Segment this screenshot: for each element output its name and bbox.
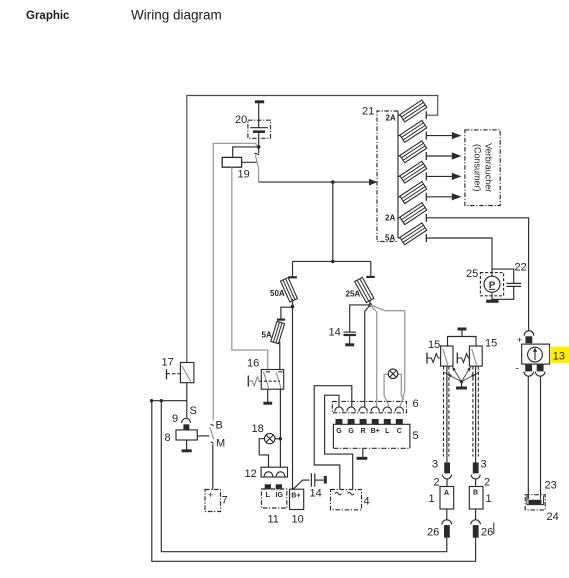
wire main horizontal to fuse box	[259, 181, 370, 183]
plug 3 right	[473, 462, 479, 473]
capacitor 20 plates	[250, 127, 268, 129]
svg-text:11: 11	[268, 514, 279, 526]
capacitor 20 terminal bar	[255, 100, 264, 103]
meter 13 box	[522, 344, 550, 364]
wire socket 2 to alternator left	[314, 386, 352, 490]
ground below regulator 5	[362, 448, 364, 457]
svg-text:A: A	[444, 490, 449, 497]
svg-text:(Consumer): (Consumer)	[473, 144, 483, 192]
switch 16 actuator	[247, 376, 249, 387]
wire fuse 5A to sender 25	[427, 238, 492, 273]
fuse box 21 rail	[397, 111, 399, 238]
switch 16 box	[261, 370, 283, 390]
svg-text:2A: 2A	[385, 214, 395, 223]
glow switch 15 left arm	[443, 349, 448, 366]
node below 50A	[291, 305, 295, 309]
connector 9 socket	[182, 418, 191, 423]
wire to 25A fuse	[370, 261, 372, 277]
svg-text:S: S	[190, 405, 197, 417]
meter 13 dial	[528, 347, 543, 362]
wire junction to socket 3	[365, 305, 371, 407]
svg-text:5A: 5A	[262, 330, 272, 339]
node main horizontal	[331, 180, 335, 184]
shielded cable right	[472, 366, 474, 456]
svg-text:Wiring diagram: Wiring diagram	[131, 8, 222, 23]
fuse row 4	[398, 161, 462, 183]
fuse 50A	[280, 278, 297, 302]
capacitor 20 box	[248, 120, 271, 138]
socket 2 right	[471, 475, 480, 479]
relay 19 fixed contact tick	[258, 147, 260, 153]
wire relay coil to switch 16	[232, 167, 268, 369]
svg-text:25A: 25A	[346, 290, 361, 299]
relay 19 contact arm	[255, 155, 259, 171]
charge lamp	[388, 369, 398, 379]
wire box B to socket	[475, 509, 477, 520]
svg-text:L: L	[385, 428, 390, 435]
wire upper bus A	[161, 401, 447, 552]
wire switch 17 to S junction	[186, 383, 188, 401]
svg-text:4: 4	[364, 496, 370, 508]
glow plug wires 23	[527, 376, 529, 499]
fuse row 5	[398, 182, 462, 204]
shielded cable left	[443, 366, 445, 456]
svg-text:14: 14	[329, 327, 341, 339]
svg-text:16: 16	[247, 358, 259, 370]
node lower	[331, 260, 335, 264]
plug 26 right	[473, 525, 479, 538]
fuse row 1	[386, 100, 427, 122]
svg-text:5A: 5A	[385, 234, 395, 243]
wire glow switch feed	[448, 337, 477, 347]
wire 5A fuse to switch 16	[279, 342, 281, 370]
svg-text:18: 18	[252, 423, 264, 435]
svg-text:5: 5	[413, 430, 419, 442]
svg-text:G: G	[336, 428, 342, 435]
oil sender 25 box	[480, 273, 503, 296]
svg-text:12: 12	[245, 468, 257, 480]
capacitor 22 plates	[506, 282, 521, 284]
wire socket 1 to alternator right	[325, 395, 353, 489]
ground below glow switches	[461, 382, 463, 387]
svg-text:L: L	[266, 492, 271, 499]
terminal tick 50A	[288, 276, 297, 278]
fuse row 2	[398, 120, 462, 142]
connector 6 box	[332, 401, 406, 412]
relay 19 coil box	[222, 157, 241, 167]
switch 17 box	[180, 363, 194, 383]
svg-text:22: 22	[515, 262, 527, 274]
wire B+ node diagonal	[293, 480, 310, 490]
wire capacitor 20 to node	[258, 132, 260, 147]
consumer text	[473, 143, 494, 192]
ground below switch 16	[267, 389, 269, 402]
ground below sender 25	[491, 292, 493, 300]
meter 13 plus pin	[525, 336, 532, 343]
connector 6 sockets	[335, 407, 343, 412]
wire contact to main node	[258, 171, 260, 183]
wire M to battery 7	[212, 444, 214, 489]
fuse 25A	[355, 277, 374, 302]
charge lamp left lead	[384, 374, 389, 406]
capacitor 20 stem wire	[258, 103, 260, 128]
wire main vertical drop	[332, 182, 334, 261]
svg-text:15: 15	[485, 338, 497, 350]
fuse row 7	[385, 223, 427, 245]
wire solenoid to starter contact	[197, 435, 209, 437]
arrow into fuse box	[369, 179, 377, 186]
svg-text:24: 24	[547, 511, 559, 523]
svg-text:50A: 50A	[270, 289, 285, 298]
svg-text:M: M	[216, 438, 225, 450]
ground below capacitor 14	[349, 335, 351, 344]
meter 13 socket	[524, 331, 534, 336]
wire junction to socket 4	[370, 305, 376, 407]
starter pin	[183, 424, 189, 430]
oil sender 25 gauge	[484, 276, 500, 292]
node 25A junction	[369, 303, 373, 307]
capacitor 22 loop bottom	[492, 286, 514, 299]
svg-text:19: 19	[238, 169, 250, 181]
socket above plug 26 left	[442, 520, 452, 525]
lamp 18	[265, 433, 275, 443]
svg-text:10: 10	[292, 514, 304, 526]
unit 11 pin L	[265, 484, 271, 489]
meter 13 lower sockets	[524, 372, 534, 377]
plug 3 left	[444, 462, 450, 473]
svg-text:+: +	[517, 335, 522, 345]
svg-text:1: 1	[486, 493, 492, 505]
consumer box	[465, 130, 500, 206]
svg-text:+: +	[208, 490, 213, 500]
node at relay 19 top	[257, 145, 261, 149]
capacitor 14b wire and terminal	[315, 479, 324, 481]
yellow highlight 13	[550, 347, 569, 364]
fuse row 6	[385, 203, 427, 225]
switch 17 contact arm	[182, 366, 191, 382]
fuse box 21 frame	[377, 111, 398, 242]
fuse row 3	[398, 141, 462, 163]
svg-text:3: 3	[481, 459, 487, 471]
terminal tick 25A	[366, 276, 375, 278]
svg-text:14: 14	[310, 488, 322, 500]
cursor artifact	[493, 523, 495, 535]
wire junction right loop to socket 6	[370, 305, 404, 407]
connector 12 sockets	[264, 472, 273, 477]
wire box A to socket	[446, 509, 448, 520]
igniter B box	[469, 487, 483, 510]
switch 16 mechanical link	[259, 380, 280, 382]
unit 11 box	[262, 489, 287, 508]
meter 13 minus pins	[525, 365, 532, 372]
charge lamp right lead	[398, 374, 404, 400]
capacitor 22 loop top	[492, 269, 514, 283]
switch 16 contact arms	[264, 372, 269, 389]
svg-text:13: 13	[553, 351, 565, 363]
svg-text:B+: B+	[371, 428, 380, 435]
lamp 18 wires	[275, 438, 280, 440]
svg-text:17: 17	[162, 357, 174, 369]
glow plug 24 box	[525, 495, 545, 510]
ground above glow switches 15	[458, 328, 467, 331]
glow switch 15 left box	[441, 346, 453, 366]
relay 19 mechanical link	[242, 161, 257, 163]
socket 2 left	[443, 475, 452, 479]
wire 25A fuse stub	[369, 300, 372, 305]
wire socket 2 to box A	[446, 479, 448, 487]
battery 10 box	[290, 489, 304, 509]
socket above plug 26 right	[471, 520, 481, 525]
oil sender 25 wire in	[491, 273, 493, 277]
svg-text:B: B	[473, 490, 478, 497]
svg-text:7: 7	[222, 495, 228, 507]
svg-text:6: 6	[413, 398, 419, 410]
alternator 4 phase symbols	[335, 492, 341, 495]
wire socket 2 to box B	[475, 479, 477, 487]
svg-text:1: 1	[429, 493, 435, 505]
svg-text:IG: IG	[276, 492, 284, 499]
svg-text:26: 26	[481, 527, 493, 539]
svg-text:26: 26	[427, 527, 439, 539]
svg-text:B+: B+	[291, 493, 300, 500]
starter contact M tick	[211, 442, 214, 444]
wire switch 16 to lamp 18 node and socket	[279, 388, 281, 467]
terminal tick 5A	[277, 319, 285, 321]
connector 12 box	[261, 467, 287, 477]
switch 16 entry ticks	[266, 371, 270, 373]
svg-text:C: C	[397, 428, 402, 435]
unit 11 pin IG	[276, 484, 282, 489]
svg-text:2: 2	[434, 477, 440, 489]
svg-text:G: G	[348, 428, 354, 435]
starter contact arm	[210, 427, 214, 439]
wire top bus	[187, 96, 438, 363]
regulator 5 box	[333, 424, 410, 448]
glow switch 15 right arm	[472, 349, 477, 366]
starter solenoid 8 box	[176, 430, 197, 440]
wire lower bus B	[152, 401, 476, 562]
junction line	[152, 401, 187, 418]
svg-text:2A: 2A	[386, 114, 396, 123]
svg-text:2: 2	[484, 477, 490, 489]
svg-text:Verbraucher: Verbraucher	[484, 143, 494, 192]
igniter A box	[440, 487, 454, 510]
wire fuse 2A to meter 13	[427, 218, 529, 331]
capacitor 14 plates	[344, 331, 356, 333]
svg-text:23: 23	[545, 480, 557, 492]
wire to 50A fuse	[292, 261, 294, 277]
glow switch 15 left actuator	[426, 353, 428, 364]
glow switch 15 right actuator	[456, 353, 458, 364]
shield ground diagonals	[444, 372, 462, 381]
node lamp 18	[279, 437, 282, 440]
wire gray battery feed to node	[213, 143, 259, 420]
glow switch 15 right box	[469, 346, 482, 366]
svg-text:15: 15	[428, 339, 440, 351]
svg-text:B: B	[216, 420, 223, 432]
regulator 5 pins	[336, 419, 343, 425]
wire 50A fuse down to B+ node	[292, 299, 294, 490]
plug 26 left	[444, 525, 450, 538]
alternator 4 box	[331, 490, 362, 510]
svg-text:8: 8	[165, 432, 171, 444]
wire lower horizontal	[293, 260, 371, 262]
fuse 5A	[271, 321, 285, 343]
wire node to relay coil	[233, 147, 259, 158]
svg-text:9: 9	[172, 413, 178, 425]
switch 17 actuator	[166, 369, 168, 379]
wire junction to capacitor 14	[350, 305, 371, 332]
svg-text:R: R	[361, 428, 366, 435]
svg-text:21: 21	[362, 106, 374, 118]
battery 7 box	[205, 490, 221, 512]
wire branch to 5A fuse	[281, 307, 293, 319]
capacitor 14b plates	[310, 473, 312, 487]
svg-text:-: -	[516, 364, 519, 375]
svg-text:25: 25	[466, 268, 478, 280]
starter contact B tick	[211, 424, 214, 426]
svg-text:Graphic: Graphic	[26, 10, 70, 22]
svg-text:3: 3	[432, 459, 438, 471]
svg-text:20: 20	[235, 114, 247, 126]
glow plug 24 element	[527, 496, 544, 505]
ground below solenoid 8	[186, 440, 188, 450]
